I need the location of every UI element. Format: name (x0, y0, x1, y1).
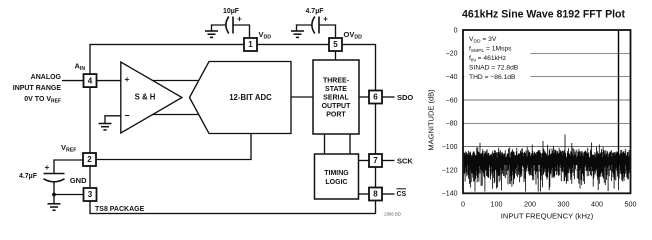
svg-text:6: 6 (373, 93, 378, 102)
wire S&H to ADC upper (153, 80, 199, 82)
wire timing logic to pin8 (359, 193, 370, 195)
svg-text:4.7µF: 4.7µF (305, 8, 324, 15)
svg-text:2: 2 (87, 155, 92, 164)
svg-text:LOGIC: LOGIC (325, 179, 347, 186)
svg-text:SDO: SDO (397, 93, 413, 102)
wire S&H - input to ground (105, 116, 121, 123)
pin 4 box (84, 74, 97, 87)
svg-text:−: − (124, 111, 129, 121)
svg-text:SERIAL: SERIAL (323, 95, 349, 102)
svg-text:TS8 PACKAGE: TS8 PACKAGE (95, 206, 145, 213)
svg-text:S & H: S & H (135, 93, 156, 102)
chip outline TS8 package U1 (90, 45, 376, 214)
wire ADC output to serial port (291, 96, 313, 98)
svg-text:300: 300 (558, 200, 570, 209)
wire S&H to ADC lower (153, 114, 199, 116)
svg-text:400: 400 (591, 200, 603, 209)
svg-text:THREE-: THREE- (323, 78, 350, 85)
pin 5 box (329, 38, 342, 51)
pin 8 box (369, 188, 382, 201)
svg-text:200: 200 (524, 200, 536, 209)
svg-text:+: + (45, 163, 50, 172)
pin 7 box (369, 154, 382, 167)
svg-text:7: 7 (373, 156, 378, 165)
svg-text:−40: −40 (446, 74, 458, 81)
svg-text:5: 5 (333, 40, 338, 49)
ground at C1 (205, 31, 218, 37)
svg-text:−100: −100 (442, 144, 458, 151)
svg-text:1: 1 (248, 40, 253, 49)
capacitor C1 10uF wire and plates (212, 25, 227, 31)
FFT fundamental spike 461kHz (618, 31, 620, 169)
FFT y axis labels (442, 27, 458, 197)
svg-text:2366 BD: 2366 BD (384, 212, 401, 217)
svg-text:ANALOG: ANALOG (31, 74, 62, 81)
FFT x axis labels (461, 200, 637, 209)
svg-text:INPUT FREQUENCY (kHz): INPUT FREQUENCY (kHz) (501, 212, 594, 221)
svg-text:OUTPUT: OUTPUT (322, 103, 352, 110)
ground at C2 (291, 31, 304, 37)
wire serial port to pin6 (359, 96, 369, 98)
three-state serial output port box (313, 60, 359, 134)
svg-text:4: 4 (88, 76, 93, 85)
wire pin4 to S&H + input (97, 80, 122, 82)
svg-text:SCK: SCK (397, 157, 413, 166)
label CS with overline (397, 189, 407, 198)
ground at S&H - input (99, 124, 112, 130)
svg-text:0: 0 (454, 27, 458, 34)
svg-text:−20: −20 (446, 51, 458, 58)
wire pin8 to CS label (382, 193, 395, 195)
svg-text:STATE: STATE (325, 86, 347, 93)
wire VREF pin2 to ADC (97, 134, 252, 160)
bus serial port to timing logic (325, 134, 351, 154)
svg-text:TIMING: TIMING (324, 170, 349, 177)
op-amp S&H A1 (121, 62, 182, 133)
capacitor C3 4.7uF (VREF bypass) (54, 160, 83, 173)
capacitor C2 4.7uF wire and plates (297, 25, 313, 31)
svg-text:THD = −86.1dB: THD = −86.1dB (469, 74, 516, 81)
timing logic box (315, 154, 359, 199)
svg-text:−140: −140 (442, 191, 458, 198)
FFT plot gridlines (463, 53, 631, 170)
wire pin5 to serial port (335, 51, 337, 60)
svg-text:MAGNITUDE (dB): MAGNITUDE (dB) (427, 89, 436, 151)
svg-text:SINAD = 72.8dB: SINAD = 72.8dB (469, 65, 519, 72)
svg-text:4.7µF: 4.7µF (19, 173, 38, 180)
wire timing logic to pin7 (359, 160, 369, 162)
svg-text:+: + (237, 15, 242, 24)
pin 6 box (369, 91, 382, 104)
svg-text:PORT: PORT (326, 112, 346, 119)
svg-text:−80: −80 (446, 121, 458, 128)
svg-text:3: 3 (88, 190, 93, 199)
wire analog input to pin4 (62, 80, 84, 82)
svg-text:500: 500 (625, 200, 637, 209)
FFT plot frame (463, 30, 631, 193)
svg-text:CS: CS (397, 191, 407, 198)
svg-text:−120: −120 (442, 167, 458, 174)
svg-text:GND: GND (70, 176, 87, 185)
junction node C3/GND pin3 (52, 193, 56, 197)
svg-text:100: 100 (491, 200, 503, 209)
wire pin7 to SCK label (382, 160, 395, 162)
pin 3 box (84, 188, 97, 201)
FFT noise floor (464, 135, 630, 192)
svg-text:12-BIT ADC: 12-BIT ADC (229, 93, 272, 102)
svg-text:0: 0 (461, 200, 465, 209)
ADC block pentagon (190, 62, 292, 134)
svg-text:−60: −60 (446, 97, 458, 104)
svg-text:+: + (323, 15, 328, 24)
wire pin6 to SDO label (382, 96, 395, 98)
svg-text:461kHz Sine Wave 8192 FFT Plot: 461kHz Sine Wave 8192 FFT Plot (462, 9, 625, 21)
svg-text:INPUT RANGE: INPUT RANGE (13, 85, 62, 92)
pin 2 box (83, 153, 96, 166)
label analog input range (13, 74, 62, 105)
svg-text:8: 8 (373, 190, 378, 199)
FFT annotation box (464, 31, 530, 85)
svg-text:+: + (125, 74, 130, 84)
pin 1 box (244, 38, 257, 51)
ground at C3 (48, 204, 61, 210)
